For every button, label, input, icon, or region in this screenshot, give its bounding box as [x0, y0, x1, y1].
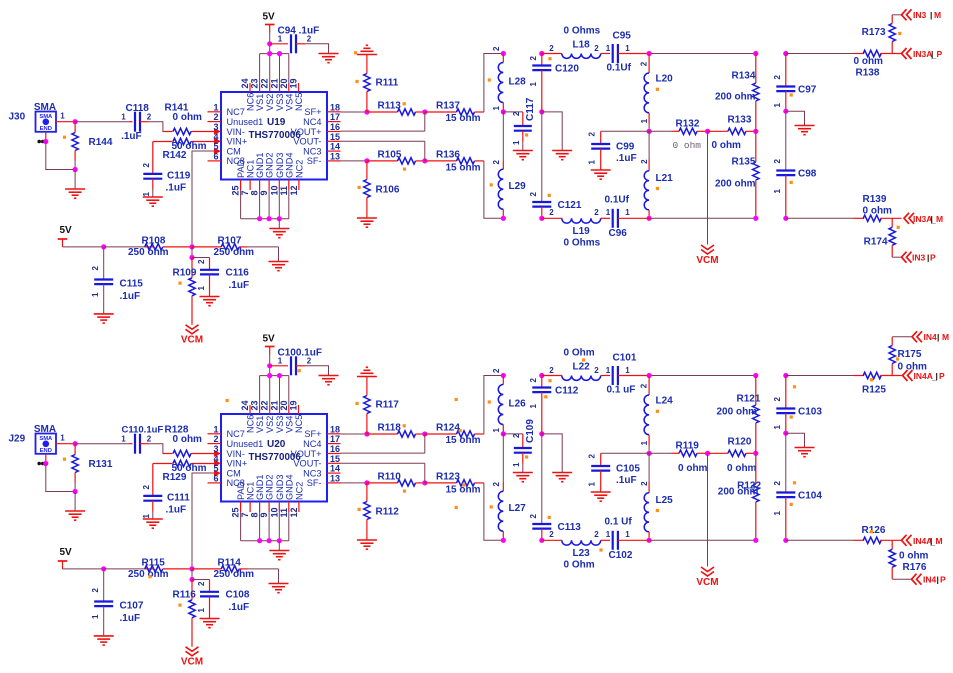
svg-text:17: 17 [330, 434, 340, 444]
wire bottom rail to output R [786, 217, 854, 219]
capacitor C94 .1uF [270, 26, 319, 54]
wire CM net [192, 473, 214, 569]
wire to M port [892, 14, 901, 16]
svg-text:0 Ohm: 0 Ohm [564, 348, 595, 359]
inductor L25 [640, 453, 673, 540]
capacitor C96 [605, 195, 650, 240]
wire SF- [341, 160, 367, 162]
svg-text:VS1: VS1 [255, 94, 265, 111]
svg-text:L28: L28 [509, 77, 527, 88]
svg-text:IN3A: IN3A [913, 49, 932, 59]
capacitor C103 [773, 376, 822, 434]
svg-text:2: 2 [773, 397, 782, 402]
resistor R176 [889, 540, 929, 579]
svg-text:NC6: NC6 [246, 93, 256, 111]
svg-text:1: 1 [60, 434, 65, 443]
resistor R175 [889, 337, 927, 376]
svg-text:250 ohm: 250 ohm [214, 247, 255, 258]
svg-text:R135: R135 [732, 157, 756, 168]
svg-text:200 ohm: 200 ohm [717, 407, 758, 418]
junction bottom rail C [539, 216, 544, 221]
no-connect marks [37, 462, 44, 466]
svg-text:R134: R134 [732, 71, 756, 82]
svg-text:.1uF: .1uF [120, 291, 141, 302]
junction top rail L [501, 51, 506, 56]
svg-text:R106: R106 [376, 185, 400, 196]
inductor L29 [492, 112, 526, 218]
svg-text:0.1Uf: 0.1Uf [605, 195, 630, 206]
junction SF- [364, 158, 369, 163]
svg-text:4: 4 [213, 132, 218, 142]
junction CM node [189, 244, 194, 249]
wire C mid to ground [786, 111, 805, 125]
svg-text:1: 1 [529, 82, 538, 87]
svg-text:2: 2 [142, 163, 151, 168]
port IN3_P [902, 252, 937, 263]
svg-text:.1uF: .1uF [166, 505, 187, 516]
svg-text:9: 9 [259, 512, 269, 517]
wire cap to series R [140, 122, 165, 132]
svg-text:R132: R132 [676, 119, 700, 130]
svg-text:CM: CM [227, 146, 241, 156]
junction mid C [539, 431, 544, 436]
power VCM bias [181, 647, 203, 668]
svg-text:R144: R144 [89, 137, 113, 148]
wire VOUT+ [341, 112, 425, 131]
svg-text:2: 2 [512, 111, 521, 116]
junction SF-/VOUT- [422, 480, 427, 485]
junction top rail C2 [783, 373, 788, 378]
wire input node to coupling cap [75, 443, 132, 445]
wire bottom rail to right [649, 539, 756, 541]
svg-text:VS4: VS4 [284, 94, 294, 111]
svg-text:SF-: SF- [307, 478, 322, 488]
resistor R108 250 ohm [104, 236, 192, 259]
svg-text:1: 1 [60, 112, 65, 121]
resistor R121 200 ohm [717, 376, 761, 454]
svg-text:M: M [936, 536, 943, 546]
resistor R137 15 ohm [425, 101, 484, 125]
svg-text:C99: C99 [616, 142, 635, 153]
wire to P port [892, 256, 901, 258]
svg-text:0 ohm: 0 ohm [712, 140, 742, 151]
svg-text:1: 1 [492, 106, 501, 111]
svg-text:0.1 Uf: 0.1 Uf [605, 517, 633, 528]
wire SMA pin2 [45, 454, 47, 464]
ground [143, 519, 163, 528]
ground [319, 376, 339, 385]
svg-text:L21: L21 [656, 173, 674, 184]
junction C tap [189, 577, 194, 582]
capacitor C97 [773, 54, 817, 112]
svg-text:IN4A: IN4A [914, 371, 933, 381]
svg-text:0 ohm: 0 ohm [173, 112, 203, 123]
capacitor C116 .1uF [192, 258, 249, 297]
svg-text:Unused1: Unused1 [227, 439, 264, 449]
junction bottom rail L [501, 216, 506, 221]
svg-text:C119: C119 [167, 171, 191, 182]
junction SMA pin2 [43, 139, 48, 144]
svg-text:R120: R120 [728, 437, 752, 448]
resistor R123 15 ohm [425, 472, 484, 496]
svg-text:C121: C121 [558, 200, 582, 211]
svg-text:C118: C118 [126, 103, 150, 114]
svg-text:PAD: PAD [236, 159, 246, 178]
svg-text:1: 1 [606, 208, 611, 217]
svg-text:R116: R116 [173, 590, 197, 601]
svg-text:L19: L19 [573, 226, 591, 237]
svg-text:IN3: IN3 [913, 10, 927, 20]
svg-text:15 ohm: 15 ohm [446, 435, 481, 446]
svg-text:GND1: GND1 [255, 152, 265, 178]
svg-text:2: 2 [91, 266, 100, 271]
svg-text:C94 .1uF: C94 .1uF [278, 26, 320, 37]
svg-text:.1uF: .1uF [120, 613, 141, 624]
capacitor C117 [512, 97, 536, 150]
svg-text:C101: C101 [613, 353, 637, 364]
svg-text:7: 7 [240, 512, 250, 517]
svg-text:2: 2 [512, 433, 521, 438]
svg-text:C103: C103 [798, 407, 822, 418]
wire SMA pin2 to shunt bottom [46, 142, 75, 170]
svg-text:R118: R118 [378, 423, 402, 434]
svg-text:23: 23 [250, 78, 260, 88]
junction VCM tap [705, 451, 710, 456]
inductor L19 0 Ohms [542, 208, 610, 249]
port IN4_P [912, 574, 947, 585]
resistor R105 [367, 150, 425, 165]
svg-text:25: 25 [231, 507, 241, 517]
svg-text:R133: R133 [728, 115, 752, 126]
resistor R128 0 ohm [163, 425, 214, 457]
svg-text:1: 1 [773, 103, 782, 108]
svg-text:C97: C97 [798, 85, 817, 96]
op-amp U19 THS770006 [221, 92, 327, 180]
svg-text:250 ohm: 250 ohm [128, 247, 169, 258]
svg-text:2: 2 [213, 434, 218, 444]
capacitor C121 [529, 112, 582, 218]
resistor R141 0 ohm [163, 103, 214, 135]
capacitor C98 [773, 111, 817, 218]
ground [552, 151, 572, 160]
resistor R174 [864, 218, 896, 257]
wire mid to ground [542, 112, 562, 151]
svg-text:2: 2 [549, 366, 554, 375]
svg-text:M: M [936, 214, 943, 224]
svg-text:END: END [40, 126, 52, 132]
svg-text:250 ohm: 250 ohm [214, 569, 255, 580]
svg-text:200 ohm: 200 ohm [718, 487, 759, 498]
svg-text:5: 5 [213, 464, 218, 474]
svg-text:2: 2 [594, 366, 599, 375]
svg-text:VOUT+: VOUT+ [291, 127, 322, 137]
svg-text:SF-: SF- [307, 156, 322, 166]
junction top rail C [539, 51, 544, 56]
port IN3_M [902, 9, 942, 20]
svg-text:2: 2 [773, 481, 782, 486]
svg-text:M: M [934, 10, 941, 20]
svg-text:13: 13 [330, 151, 340, 161]
ground [94, 636, 114, 645]
wire CM to C tap [191, 247, 193, 258]
no-connect marks [37, 140, 44, 144]
svg-text:.1uF: .1uF [121, 131, 142, 142]
svg-text:2: 2 [529, 514, 538, 519]
resistor R142 50 ohm [153, 138, 214, 161]
svg-text:2: 2 [91, 588, 100, 593]
svg-text:L22: L22 [573, 362, 591, 373]
svg-text:200 ohm: 200 ohm [715, 92, 756, 103]
svg-text:IN3: IN3 [912, 253, 926, 263]
svg-text:|: | [937, 332, 939, 342]
svg-text:1: 1 [606, 366, 611, 375]
svg-text:2: 2 [773, 75, 782, 80]
ground [513, 473, 533, 482]
wire C mid to ground [786, 433, 805, 447]
resistor R114 250 ohm [192, 558, 279, 581]
svg-text:R124: R124 [436, 423, 460, 434]
ground [269, 262, 289, 271]
svg-text:NC4: NC4 [303, 439, 321, 449]
ground [269, 584, 289, 593]
svg-text:.1uF: .1uF [616, 153, 637, 164]
resistor R122 200 ohm [718, 453, 762, 540]
svg-text:C113: C113 [558, 522, 582, 533]
svg-text:2: 2 [594, 208, 599, 217]
svg-text:GND4: GND4 [284, 152, 294, 178]
junction input node [73, 441, 78, 446]
op-amp U20 THS770006 [221, 414, 327, 502]
svg-text:4: 4 [213, 454, 218, 464]
ground [552, 473, 572, 482]
junction 200ohm mid [753, 451, 758, 456]
wire SF- [341, 482, 367, 484]
svg-text:2: 2 [549, 530, 554, 539]
resistor R118 [367, 423, 425, 438]
wire SF+ [341, 111, 367, 113]
svg-text:R136: R136 [436, 150, 460, 161]
svg-text:PAD: PAD [236, 481, 246, 500]
svg-text:1: 1 [91, 614, 100, 619]
resistor R139 0 ohm [854, 194, 902, 222]
svg-text:VCM: VCM [696, 577, 718, 588]
svg-text:R123: R123 [436, 472, 460, 483]
svg-text:1: 1 [512, 462, 521, 467]
svg-text:19: 19 [289, 78, 299, 88]
capacitor C118 [121, 103, 152, 142]
svg-text:NC5: NC5 [294, 93, 304, 111]
svg-text:R126: R126 [862, 525, 886, 536]
svg-text:VS4: VS4 [284, 416, 294, 433]
svg-text:1: 1 [512, 140, 521, 145]
wire top rail to right [649, 53, 756, 55]
svg-text:L29: L29 [509, 181, 527, 192]
svg-text:18: 18 [330, 424, 340, 434]
capacitor C115 .1uF [91, 247, 143, 314]
junction C mid [783, 109, 788, 114]
svg-text:1: 1 [625, 366, 630, 375]
svg-text:1: 1 [625, 530, 630, 539]
resistor R120 0 ohm [708, 437, 757, 474]
svg-text:R113: R113 [378, 101, 402, 112]
svg-text:C120: C120 [555, 64, 579, 75]
resistor R126 0 ohm [854, 525, 902, 544]
wire cap to ground [306, 44, 329, 54]
wire bottom rail to output R [786, 539, 854, 541]
svg-text:J29: J29 [9, 434, 26, 445]
resistor R119 0 ohm [649, 441, 707, 475]
junction VS bus [267, 373, 282, 378]
junction bottom rail L2 [647, 538, 652, 543]
svg-text:15: 15 [330, 454, 340, 464]
junction shunt bottom [73, 489, 78, 494]
svg-text:SMA: SMA [34, 102, 56, 113]
inductor L23 0 Ohms [542, 530, 610, 571]
svg-text:NC3: NC3 [303, 146, 321, 156]
svg-text:15 ohm: 15 ohm [446, 163, 481, 174]
resistor R112 [364, 483, 400, 540]
svg-text:R115: R115 [142, 558, 166, 569]
capacitor C110 [121, 425, 163, 454]
junction C mid [783, 431, 788, 436]
svg-text:2: 2 [594, 44, 599, 53]
svg-text:2: 2 [588, 132, 597, 137]
wire to P port [892, 578, 911, 580]
svg-text:9: 9 [259, 190, 269, 195]
svg-text:NC3: NC3 [303, 468, 321, 478]
svg-text:P: P [939, 371, 945, 381]
svg-text:R119: R119 [676, 441, 700, 452]
svg-text:NC7: NC7 [227, 429, 245, 439]
svg-text:|: | [937, 575, 939, 585]
svg-text:2: 2 [640, 383, 649, 388]
svg-text:1: 1 [197, 608, 206, 613]
ground [357, 218, 377, 227]
junction SF+ R pullup [364, 431, 369, 436]
capacitor C104 [773, 433, 822, 540]
svg-text:1: 1 [773, 511, 782, 516]
svg-text:5V: 5V [263, 334, 276, 345]
junction bottom rail L [501, 538, 506, 543]
svg-text:GND4: GND4 [284, 474, 294, 500]
wire bus to ground [278, 541, 280, 551]
svg-text:6: 6 [213, 151, 218, 161]
resistor R144 [72, 122, 113, 170]
svg-text:CM: CM [227, 468, 241, 478]
ground [795, 448, 815, 457]
pins of U19 [208, 78, 341, 195]
svg-text:R105: R105 [378, 150, 402, 161]
svg-text:R121: R121 [737, 394, 761, 405]
power 5V [263, 12, 276, 33]
svg-text:NC6: NC6 [246, 415, 256, 433]
wire bus to ground [278, 219, 280, 229]
inductor L18 0 Ohms [542, 26, 610, 59]
svg-text:C98: C98 [798, 169, 817, 180]
ground [65, 189, 85, 198]
svg-text:R110: R110 [378, 472, 402, 483]
resistor R115 250 ohm [104, 558, 192, 581]
junction SMA pin2 [43, 461, 48, 466]
resistor R129 50 ohm [153, 460, 214, 483]
svg-text:2: 2 [147, 435, 152, 444]
resistor R106 [364, 161, 400, 218]
port IN3A_P [902, 48, 943, 60]
ground [94, 314, 114, 323]
svg-text:1: 1 [213, 424, 218, 434]
svg-text:R175: R175 [898, 349, 922, 360]
svg-text:R111: R111 [376, 78, 399, 89]
svg-text:VS1: VS1 [255, 416, 265, 433]
svg-text:L27: L27 [509, 503, 527, 514]
resistor R134 200 ohm [715, 54, 759, 132]
junction 5V cap tap [267, 41, 272, 46]
wire divider to ground [278, 569, 280, 584]
svg-text:R114: R114 [218, 558, 242, 569]
svg-text:_: _ [931, 372, 937, 382]
svg-text:VIN+: VIN+ [227, 137, 248, 147]
svg-text:C111: C111 [167, 493, 190, 504]
svg-text:1: 1 [773, 425, 782, 430]
junction top rail C2 [783, 51, 788, 56]
power VCM [696, 245, 718, 266]
svg-text:24: 24 [240, 400, 250, 410]
power 5V bias [58, 547, 72, 569]
wire IC ground bus [241, 512, 289, 541]
wire VOUT+ [341, 434, 425, 453]
wire 5V to VS bus [269, 355, 271, 376]
junction CM node [189, 566, 194, 571]
svg-text:2: 2 [640, 481, 649, 486]
svg-text:1: 1 [197, 286, 206, 291]
svg-text:1: 1 [213, 102, 218, 112]
junction 200ohm mid [753, 129, 758, 134]
capacitor C107 .1uF [91, 569, 144, 636]
svg-text:20: 20 [279, 78, 289, 88]
svg-text:17: 17 [330, 112, 340, 122]
junction bottom rail L2 [647, 216, 652, 221]
svg-text:0 ohm: 0 ohm [854, 56, 884, 67]
svg-text:L23: L23 [573, 548, 591, 559]
wire to M port [892, 336, 912, 338]
svg-text:P: P [940, 575, 946, 585]
SMA connector J29 [9, 424, 57, 454]
svg-text:C109: C109 [525, 419, 536, 443]
svg-text:7: 7 [240, 190, 250, 195]
svg-text:12: 12 [289, 507, 299, 517]
svg-text:8: 8 [250, 512, 260, 517]
svg-text:0.1 uF: 0.1 uF [607, 385, 636, 396]
resistor R109 [173, 258, 197, 325]
svg-text:15 ohm: 15 ohm [446, 113, 481, 124]
junction bottom rail R [753, 538, 758, 543]
junction SF-/VOUT- [422, 158, 427, 163]
svg-text:1: 1 [121, 435, 126, 444]
svg-text:16: 16 [330, 122, 340, 132]
svg-text:24: 24 [240, 78, 250, 88]
svg-text:NC1: NC1 [246, 160, 256, 178]
svg-text:2: 2 [492, 46, 501, 51]
wire to bottom rail [484, 161, 503, 218]
svg-text:.1uF: .1uF [229, 602, 250, 613]
svg-text:10: 10 [269, 185, 279, 195]
svg-text:R173: R173 [862, 27, 886, 38]
svg-text:0 ohm: 0 ohm [173, 434, 203, 445]
svg-text:0.1Uf: 0.1Uf [607, 63, 632, 74]
capacitor C113 [529, 434, 581, 540]
capacitor C111 .1uF [142, 464, 190, 520]
junction top rail L [501, 373, 506, 378]
